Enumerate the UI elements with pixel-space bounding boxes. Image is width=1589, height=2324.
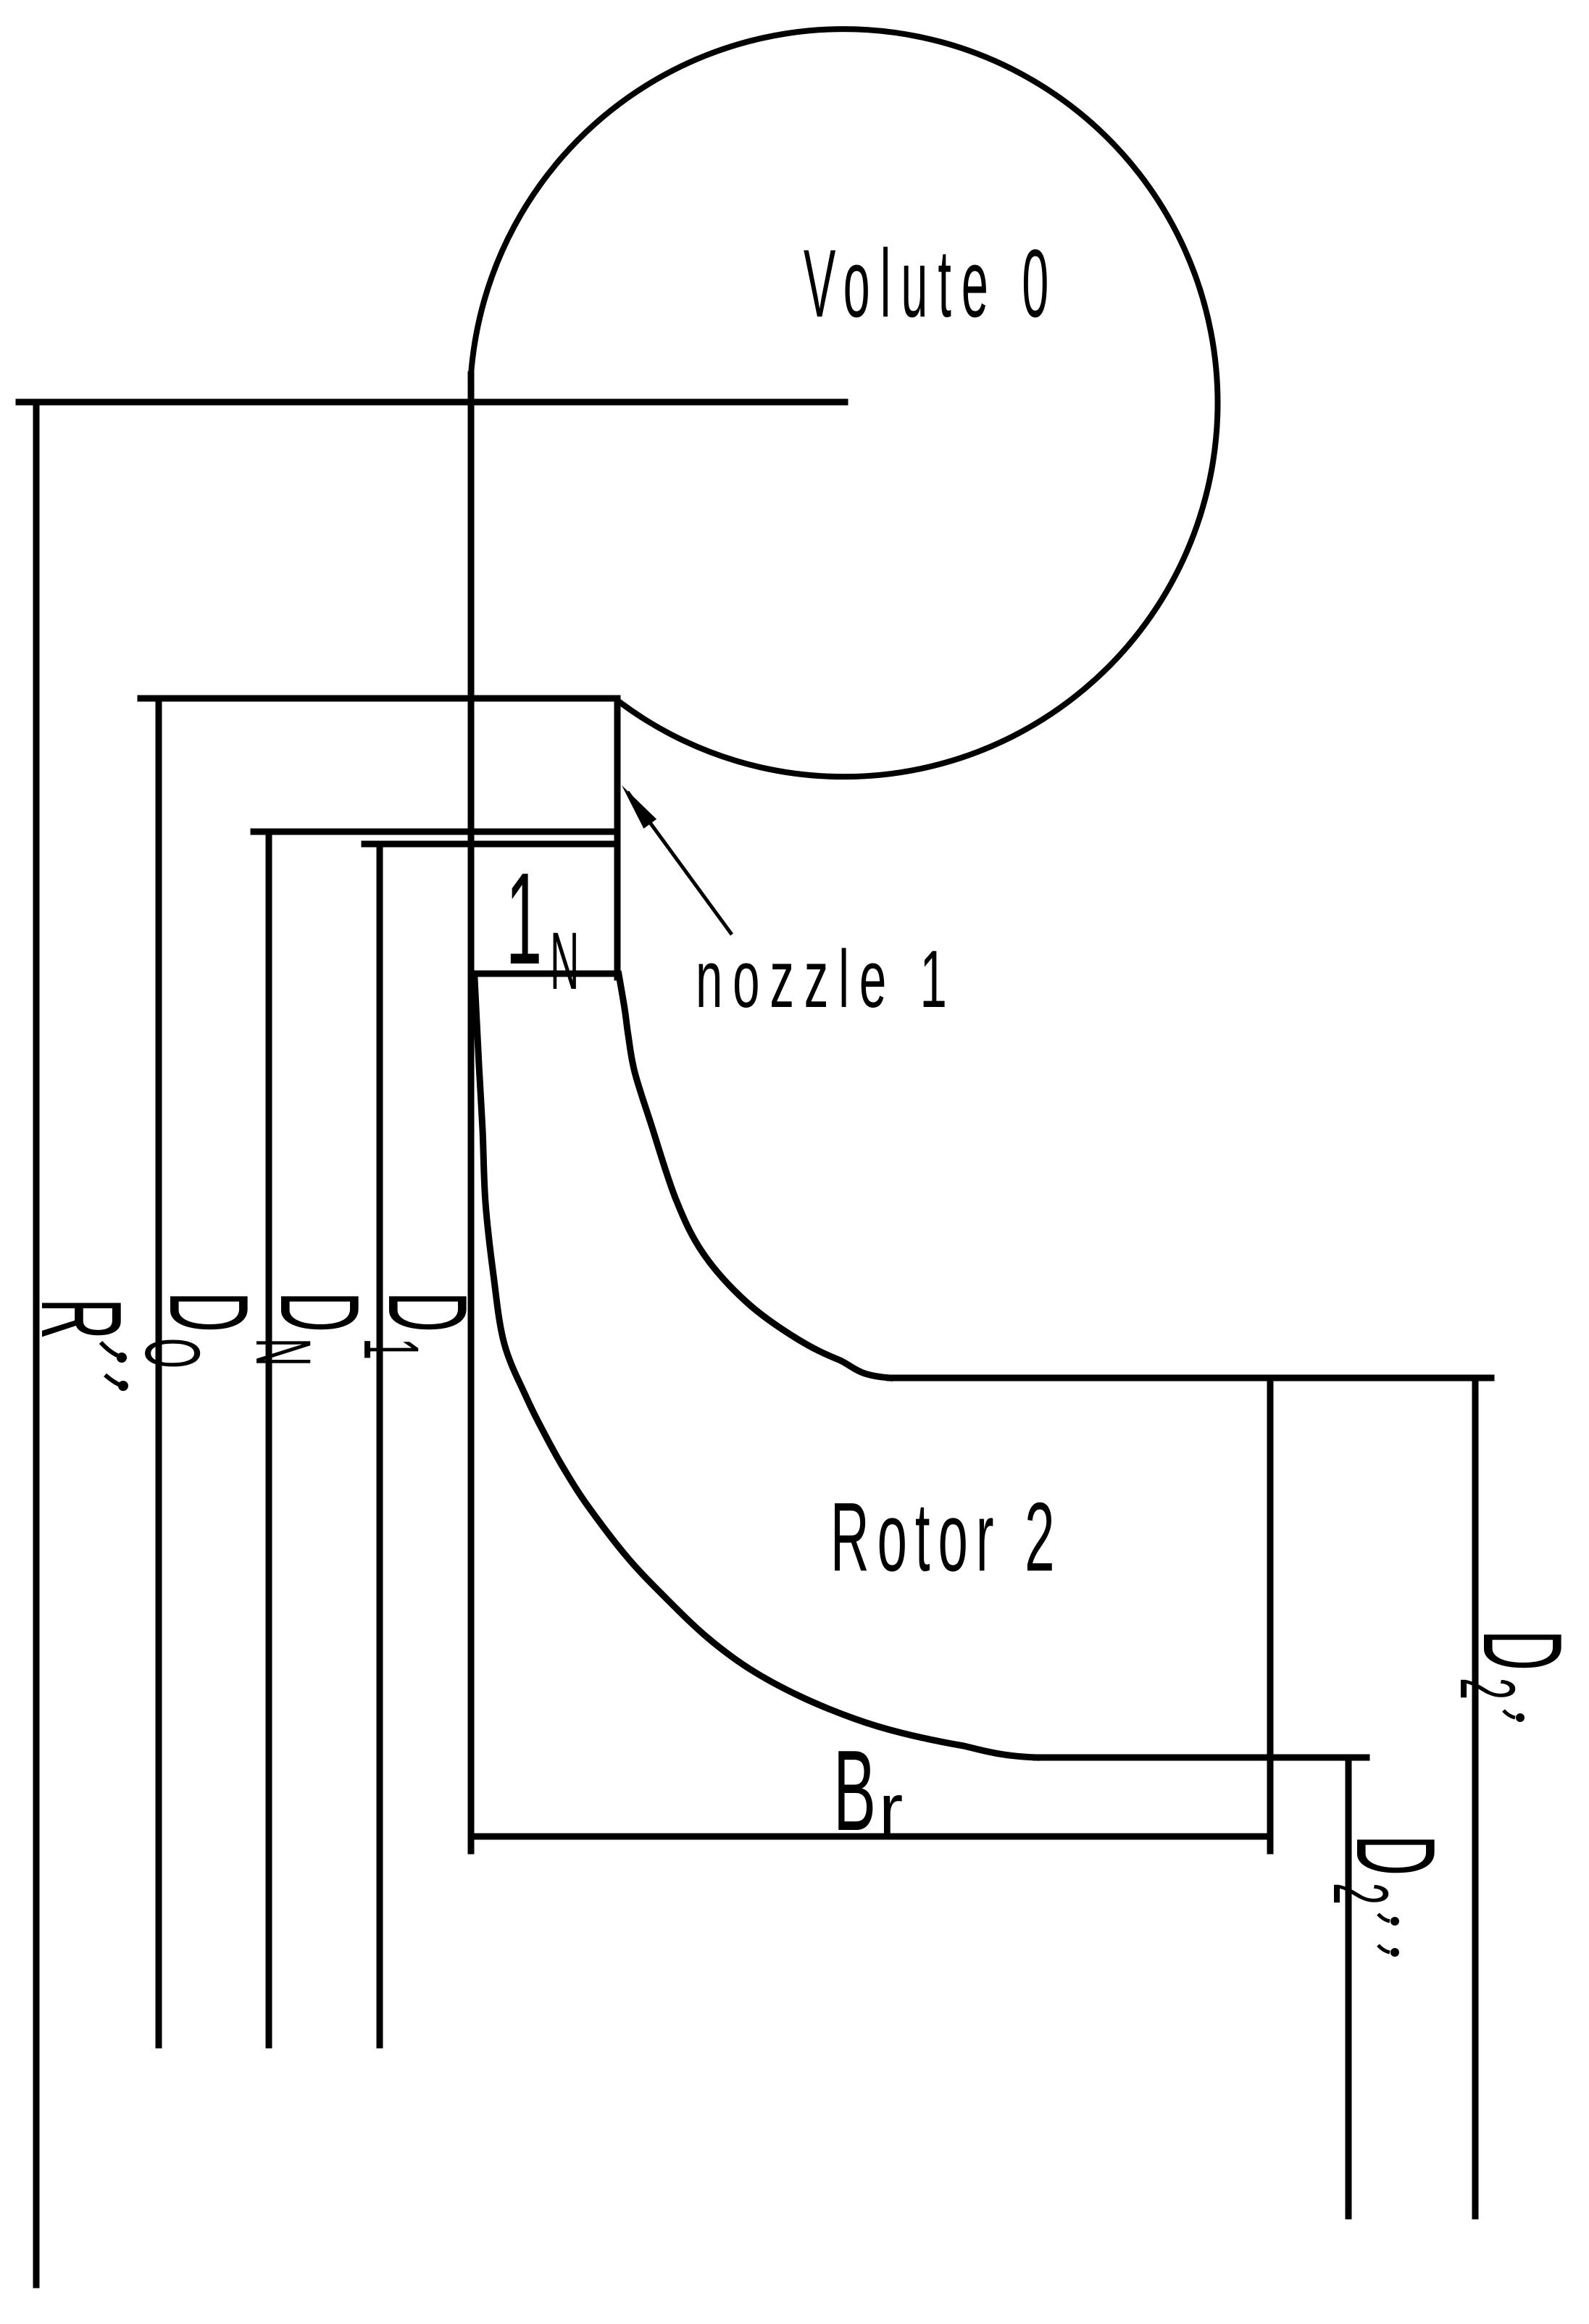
- wire D_1 dimension vertical: [377, 844, 383, 2045]
- B_r dimension line: [471, 1834, 1270, 1840]
- nozzle left wall / hub extension line: [468, 375, 475, 1851]
- nozzle right wall: [614, 698, 621, 977]
- rotor hub exit horizontal: [1036, 1755, 1367, 1761]
- centerline (horizontal axis of volute): [19, 399, 845, 406]
- wire D_N dimension vertical: [266, 832, 272, 2045]
- node D_N horizontal extension line: [254, 829, 617, 835]
- svg-text:N: N: [550, 916, 579, 1006]
- svg-text:Rotor 2: Rotor 2: [830, 1483, 1062, 1592]
- label D_2' prime mark: [1503, 1710, 1515, 1718]
- wire D_2' dimension vertical: [1472, 1379, 1479, 2216]
- svg-text:Volute 0: Volute 0: [804, 230, 1059, 338]
- node D_1 horizontal extension line: [364, 841, 617, 848]
- svg-text:nozzle 1: nozzle 1: [696, 933, 957, 1024]
- label D_2'' prime marks: [1378, 1914, 1390, 1952]
- svg-text:r: r: [879, 1769, 903, 1850]
- volute 0 outline (circle arc): [471, 29, 1218, 777]
- svg-text:B: B: [833, 1727, 876, 1855]
- wire D_O dimension vertical: [156, 698, 162, 2045]
- svg-text:R: R: [17, 1298, 145, 1339]
- leader arrowhead: [622, 785, 656, 829]
- wire D_2'' dimension vertical: [1346, 1757, 1352, 2216]
- rotor shroud contour curve: [619, 974, 890, 1378]
- label R'' prime marks: [101, 1342, 119, 1384]
- wire R'' dimension vertical: [33, 402, 40, 2285]
- leader line to nozzle 1: [627, 792, 732, 935]
- 1_N nozzle exit dimension line: [471, 971, 617, 977]
- rotor exit right vertical (B_r extension): [1267, 1379, 1274, 1851]
- rotor shroud exit horizontal: [890, 1375, 1491, 1382]
- rotor hub contour arc: [475, 978, 1036, 1757]
- node D_O horizontal extension line: [141, 695, 617, 702]
- svg-text:1: 1: [506, 846, 542, 992]
